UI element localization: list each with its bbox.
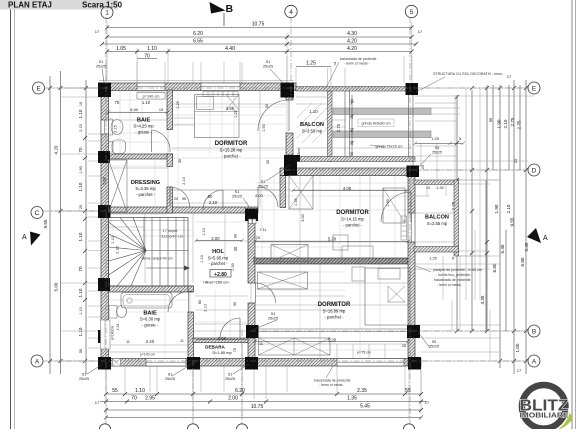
svg-text:1.90: 1.90 — [79, 166, 83, 173]
right wall grid5 lower — [408, 242, 415, 366]
svg-text:S3: S3 — [271, 312, 276, 316]
svg-text:2.10: 2.10 — [182, 177, 186, 184]
svg-text:90: 90 — [208, 194, 213, 199]
extension verticals — [106, 22, 108, 80]
window dormitor top — [201, 83, 240, 91]
p=140 box top — [137, 93, 165, 100]
bubble 5 bottom — [403, 424, 414, 434]
column S1 grid1xA — [98, 357, 111, 370]
svg-text:- parchet -: - parchet - — [136, 192, 156, 197]
svg-text:17: 17 — [517, 368, 522, 373]
svg-text:4: 4 — [289, 9, 293, 16]
svg-text:- parchet -: - parchet - — [324, 315, 344, 320]
svg-text:1.10: 1.10 — [78, 109, 83, 118]
column S3 grid3xB — [246, 325, 259, 338]
svg-text:25x25: 25x25 — [432, 151, 442, 155]
svg-text:S=14.15 mp: S=14.15 mp — [341, 217, 364, 222]
svg-text:10: 10 — [426, 186, 430, 190]
svg-text:S1: S1 — [235, 190, 240, 194]
column S3 grid4xD — [284, 155, 297, 176]
+2.80 box done above; inner dims — [103, 99, 462, 355]
svg-text:1.90: 1.90 — [497, 119, 502, 128]
wall baie-dormitor vertical lower — [167, 154, 173, 167]
walls hatched — [101, 83, 421, 366]
svg-text:p=75 cm: p=75 cm — [357, 351, 371, 355]
beam grinda 1 — [333, 108, 431, 115]
svg-text:DEBARA: DEBARA — [205, 345, 225, 350]
logo green swoosh — [530, 413, 573, 434]
bubble A right — [528, 355, 540, 367]
dim 1.25 line right of terrace — [351, 95, 466, 155]
grid line D — [285, 169, 528, 171]
door baie top — [152, 130, 171, 152]
svg-text:S=5.95 mp: S=5.95 mp — [208, 256, 229, 261]
svg-text:S=1.85 mp: S=1.85 mp — [212, 350, 232, 355]
top balcony railings — [296, 87, 415, 162]
svg-text:80: 80 — [198, 300, 202, 304]
section arrow A right — [527, 228, 548, 243]
svg-text:17: 17 — [425, 400, 430, 405]
svg-text:55: 55 — [489, 118, 493, 122]
dim line row2 — [107, 36, 412, 38]
svg-text:7.11: 7.11 — [259, 228, 266, 232]
wall hol/dorm vertical — [248, 213, 255, 283]
svg-text:DORMITOR: DORMITOR — [336, 210, 369, 216]
svg-text:B: B — [532, 329, 536, 336]
bottom wall A — [101, 359, 421, 367]
sill line bottom dorm — [255, 329, 408, 332]
svg-text:25x25: 25x25 — [263, 65, 273, 69]
grid line 3 — [241, 330, 243, 425]
room labels — [131, 118, 449, 356]
svg-text:9.55: 9.55 — [43, 219, 48, 228]
section arrow A left — [22, 232, 41, 246]
svg-text:90: 90 — [233, 302, 237, 306]
svg-text:- lemn si metal -: - lemn si metal - — [344, 62, 370, 66]
bubble 2 bottom — [187, 424, 198, 434]
svg-text:17: 17 — [95, 29, 100, 34]
balcony top decking — [297, 103, 327, 143]
window baie top — [137, 83, 165, 91]
column grid1xB — [98, 330, 110, 343]
page border right — [571, 0, 573, 429]
column S5 grid5xB — [407, 325, 420, 338]
north arrow B — [210, 2, 226, 14]
svg-text:S=4.25 mp: S=4.25 mp — [133, 124, 154, 129]
svg-text:1.00: 1.00 — [515, 343, 520, 352]
svg-text:95: 95 — [182, 197, 186, 201]
svg-text:p=0cm: p=0cm — [297, 148, 301, 160]
svg-text:4.40: 4.40 — [225, 46, 235, 52]
svg-text:S3: S3 — [261, 180, 266, 184]
door debara — [220, 318, 240, 338]
svg-text:S=3.55 mp: S=3.55 mp — [427, 221, 448, 226]
svg-text:6.20: 6.20 — [193, 31, 203, 37]
svg-text:- inchis box_protectie -: - inchis box_protectie - — [436, 273, 473, 277]
svg-text:70: 70 — [131, 396, 137, 402]
fan lines — [109, 222, 147, 251]
svg-text:2.10: 2.10 — [503, 119, 508, 128]
svg-text:90: 90 — [234, 234, 238, 238]
svg-text:Scara 1:50: Scara 1:50 — [82, 1, 123, 10]
svg-text:2.15: 2.15 — [79, 124, 83, 131]
svg-text:DORMITOR: DORMITOR — [215, 141, 248, 147]
wall baie-dormitor vertical upper — [167, 90, 173, 130]
column grid3xA — [245, 357, 258, 370]
svg-text:1: 1 — [105, 10, 109, 17]
niche p140 — [137, 92, 165, 99]
wall baie/hol vertical lower — [188, 312, 194, 359]
svg-text:1.10: 1.10 — [202, 228, 206, 235]
svg-text:31x16/47 cm: 31x16/47 cm — [161, 235, 183, 239]
window bottom-left — [146, 359, 186, 367]
window right wall mid dorm — [408, 213, 415, 242]
svg-text:3.00: 3.00 — [301, 214, 305, 221]
svg-text:1.50: 1.50 — [231, 263, 235, 270]
svg-text:STRUCTURA CU ROL DECORATIV - l: STRUCTURA CU ROL DECORATIV - lemn - — [433, 72, 505, 76]
svg-text:2.02: 2.02 — [218, 336, 227, 341]
svg-text:1.10: 1.10 — [135, 388, 145, 394]
doors — [152, 100, 412, 338]
svg-text:30: 30 — [178, 159, 182, 163]
grid line 4 — [290, 17, 292, 100]
svg-text:S1: S1 — [82, 373, 87, 377]
windows (openings with glazing lines) — [101, 83, 415, 366]
svg-text:S=16.09 mp: S=16.09 mp — [323, 309, 346, 314]
terrace bottom railing — [296, 157, 415, 162]
svg-text:4.35: 4.35 — [480, 295, 485, 304]
svg-text:75: 75 — [233, 348, 237, 352]
svg-text:parapet de protectie - h=90 cm: parapet de protectie - h=90 cm — [433, 268, 482, 272]
svg-text:balustrada de protectie: balustrada de protectie — [434, 278, 471, 282]
svg-text:5.45: 5.45 — [360, 404, 370, 410]
wall C — [101, 207, 258, 213]
column grid1 baie/dressing — [98, 151, 110, 163]
svg-text:2.10: 2.10 — [209, 200, 218, 205]
svg-text:PLAN ETAJ: PLAN ETAJ — [8, 1, 52, 10]
wall baie/dressing — [101, 154, 173, 159]
door baie bottom — [168, 292, 189, 313]
logo ring — [522, 385, 566, 429]
svg-text:A: A — [532, 359, 537, 366]
svg-text:- lemn si metal -: - lemn si metal - — [437, 283, 463, 287]
bubble 4 top — [285, 5, 297, 17]
notes — [140, 57, 505, 387]
svg-text:1.10: 1.10 — [78, 182, 83, 191]
svg-text:1.25: 1.25 — [176, 101, 180, 108]
svg-text:BALCON: BALCON — [425, 215, 449, 221]
grid line 5 — [409, 17, 411, 425]
svg-text:70: 70 — [78, 266, 83, 272]
svg-text:9.55: 9.55 — [510, 217, 515, 226]
right wall grid5 upper — [408, 176, 415, 214]
svg-text:15: 15 — [159, 108, 163, 112]
svg-text:p=140 cm: p=140 cm — [140, 353, 155, 357]
svg-text:17: 17 — [95, 400, 100, 405]
svg-text:30: 30 — [266, 160, 270, 164]
svg-text:1.10: 1.10 — [147, 46, 157, 52]
svg-text:25x25: 25x25 — [268, 317, 278, 321]
svg-text:5.20: 5.20 — [328, 237, 337, 242]
svg-text:S1: S1 — [266, 60, 271, 64]
wall stair/baie — [108, 286, 193, 292]
balcony right railing — [328, 91, 333, 162]
svg-text:25: 25 — [402, 344, 406, 348]
radiator mid dorm — [401, 216, 407, 240]
bubble B right — [528, 325, 540, 337]
column S4 grid5xD — [407, 166, 420, 178]
wall grid4 lower — [286, 133, 293, 155]
svg-text:D: D — [532, 168, 537, 175]
wall mid-dorm vestibule — [280, 176, 286, 208]
svg-text:latime rampa=90 cm: latime rampa=90 cm — [142, 257, 173, 261]
svg-text:25x25: 25x25 — [225, 377, 235, 381]
bed top dormitor — [195, 95, 240, 138]
svg-text:S1: S1 — [99, 60, 104, 64]
svg-text:- parchet -: - parchet - — [343, 223, 363, 228]
svg-text:1.35: 1.35 — [294, 198, 298, 205]
svg-text:6.20: 6.20 — [235, 388, 245, 394]
bubble C left — [31, 207, 43, 219]
door dormitor bottom — [256, 283, 276, 303]
svg-text:- gresie -: - gresie - — [142, 323, 159, 328]
svg-text:25: 25 — [256, 236, 260, 240]
svg-text:1.10: 1.10 — [111, 236, 115, 243]
svg-text:25x25: 25x25 — [79, 377, 89, 381]
svg-text:55: 55 — [79, 349, 83, 353]
svg-text:10.75: 10.75 — [251, 404, 264, 410]
svg-text:11: 11 — [180, 339, 184, 343]
svg-text:25x25: 25x25 — [96, 65, 106, 69]
wall hol/dorm vertical lower — [248, 303, 255, 338]
furniture top baie — [109, 92, 166, 154]
svg-text:grinda 8x6x80 cm: grinda 8x6x80 cm — [361, 122, 390, 126]
grinda labels — [358, 119, 394, 127]
svg-text:4.20: 4.20 — [54, 145, 59, 154]
svg-text:A: A — [22, 234, 27, 241]
svg-text:5.45: 5.45 — [524, 242, 529, 251]
left wall grid1 — [101, 83, 109, 366]
svg-text:25x25: 25x25 — [232, 195, 242, 199]
door balcony top — [258, 100, 289, 131]
svg-text:6.80: 6.80 — [520, 257, 525, 266]
wc top baie — [112, 140, 126, 154]
terrace top railing — [296, 87, 412, 92]
leader lines to columns — [87, 69, 431, 376]
door balcony right — [381, 192, 411, 222]
column S1 grid4xE — [281, 83, 295, 98]
svg-text:S1: S1 — [168, 373, 173, 377]
svg-text:E: E — [36, 86, 41, 93]
svg-text:1.10: 1.10 — [142, 100, 151, 105]
door dormitor top — [203, 190, 223, 210]
svg-text:17 trepte: 17 trepte — [163, 229, 178, 233]
svg-text:grinda 76x76 cm: grinda 76x76 cm — [375, 145, 402, 149]
grid line B — [250, 330, 528, 332]
svg-text:2.20: 2.20 — [146, 339, 155, 344]
svg-text:5.98: 5.98 — [130, 108, 137, 112]
page border left — [10, 0, 12, 429]
svg-text:64: 64 — [350, 128, 354, 132]
dim line 70 row — [137, 58, 157, 60]
column balcony corner — [294, 155, 301, 162]
svg-text:4.20: 4.20 — [347, 39, 357, 45]
stair — [109, 218, 191, 287]
window bottom-right long — [337, 359, 404, 367]
bubble D right — [528, 164, 540, 176]
svg-text:2.75: 2.75 — [336, 123, 341, 132]
bubble 3 bottom — [236, 424, 247, 434]
svg-text:HOL: HOL — [212, 249, 224, 255]
sink top baie — [111, 120, 123, 135]
wall divider mid/bottom dorm — [254, 258, 414, 264]
svg-text:2.10: 2.10 — [204, 304, 208, 311]
svg-text:25: 25 — [79, 205, 83, 209]
column grid5xA — [408, 357, 421, 370]
title bar — [0, 0, 118, 10]
svg-text:1.30: 1.30 — [436, 186, 443, 190]
bottom baie furniture — [101, 293, 173, 367]
svg-text:20: 20 — [421, 165, 425, 169]
svg-text:S4: S4 — [435, 146, 440, 150]
wall D — [280, 168, 415, 176]
svg-text:10: 10 — [79, 102, 83, 106]
dim line row3 — [102, 43, 416, 45]
column grid1 stair — [98, 278, 110, 291]
radiator top dorm — [203, 92, 238, 97]
svg-text:1.25: 1.25 — [234, 110, 238, 117]
svg-text:5.00: 5.00 — [54, 282, 59, 291]
bubble 1 bottom — [99, 424, 110, 434]
door dormitor mid — [258, 187, 278, 207]
svg-text:6.55: 6.55 — [193, 39, 203, 45]
svg-text:2.75: 2.75 — [510, 117, 515, 126]
svg-text:2.00: 2.00 — [228, 396, 238, 402]
svg-text:17: 17 — [507, 74, 512, 79]
svg-text:DORMITOR: DORMITOR — [318, 302, 351, 308]
right balcony railings — [414, 180, 459, 256]
svg-text:2.75: 2.75 — [517, 120, 522, 129]
svg-text:1.90: 1.90 — [262, 124, 266, 131]
svg-text:A: A — [35, 359, 40, 366]
column S1 grid3xC — [245, 209, 258, 222]
svg-text:S=6.30 mp: S=6.30 mp — [140, 317, 161, 322]
svg-text:1.25: 1.25 — [306, 61, 316, 67]
inner dim lines — [107, 111, 411, 344]
svg-text:C: C — [35, 210, 40, 217]
svg-text:1.35: 1.35 — [347, 396, 357, 402]
grid line 2 — [192, 360, 194, 425]
travel line — [146, 267, 184, 269]
svg-text:4.20: 4.20 — [347, 46, 357, 52]
svg-text:S1: S1 — [228, 373, 233, 377]
svg-text:25x25: 25x25 — [429, 345, 439, 349]
svg-text:70: 70 — [78, 147, 83, 153]
svg-text:1.10: 1.10 — [78, 288, 83, 297]
wall debara right / dorm left lower — [248, 338, 255, 359]
svg-text:2.31: 2.31 — [116, 324, 120, 331]
column grid5xE — [406, 83, 419, 95]
svg-text:2.30: 2.30 — [116, 246, 120, 253]
svg-text:BALCON: BALCON — [300, 122, 324, 128]
wall grid4 upper — [286, 90, 293, 100]
svg-text:p=140cm: p=140cm — [111, 326, 115, 340]
grid line C — [43, 210, 110, 212]
svg-text:1.10: 1.10 — [309, 109, 318, 114]
svg-text:60: 60 — [350, 99, 354, 103]
wall baie/hol vertical upper — [188, 286, 194, 292]
svg-text:60: 60 — [350, 152, 354, 156]
svg-text:5: 5 — [452, 257, 454, 261]
svg-text:6.80: 6.80 — [492, 263, 497, 272]
svg-text:S=15.20 mp: S=15.20 mp — [220, 148, 243, 153]
grid line 1 — [105, 17, 107, 425]
svg-text:- parchet -: - parchet - — [208, 261, 228, 266]
svg-text:70: 70 — [144, 54, 150, 60]
svg-text:5.45: 5.45 — [500, 244, 505, 253]
column grid1xC — [98, 205, 111, 218]
beam grinda 2 — [333, 131, 431, 138]
svg-text:S=3.50 mp: S=3.50 mp — [302, 129, 323, 134]
svg-text:3.85: 3.85 — [226, 106, 235, 111]
svg-text:2.15: 2.15 — [114, 125, 118, 132]
svg-text:- parchet -: - parchet - — [221, 154, 241, 159]
svg-text:2.35: 2.35 — [357, 388, 367, 394]
svg-text:1.10: 1.10 — [78, 327, 83, 336]
svg-text:1.25: 1.25 — [431, 136, 440, 141]
svg-text:2.95: 2.95 — [145, 396, 155, 402]
balcony 1.25 dim — [296, 66, 331, 68]
svg-text:1.90: 1.90 — [494, 204, 499, 213]
door dressing — [170, 187, 190, 207]
svg-text:balustrada de protectie: balustrada de protectie — [340, 57, 377, 61]
columns — [98, 83, 421, 370]
svg-text:- lemn si metal -: - lemn si metal - — [319, 383, 345, 387]
svg-text:1.10: 1.10 — [79, 307, 83, 314]
svg-text:10.75: 10.75 — [252, 22, 265, 28]
grid line A — [43, 360, 528, 362]
S labels — [79, 60, 442, 381]
top wall E — [101, 83, 296, 91]
column S1 grid1xE — [98, 83, 111, 98]
svg-text:hliber=260 cm: hliber=260 cm — [203, 280, 229, 285]
bubble 5 top — [405, 5, 417, 17]
eave line above top wall — [99, 80, 294, 82]
svg-text:15: 15 — [350, 115, 354, 119]
dressing wardrobe — [109, 160, 128, 212]
svg-text:IMOBILIARE: IMOBILIARE — [520, 413, 569, 420]
svg-text:2.00: 2.00 — [255, 194, 262, 198]
bubble E right — [528, 82, 540, 94]
bubble A left — [31, 355, 43, 367]
svg-text:25x25: 25x25 — [258, 185, 268, 189]
svg-text:17: 17 — [418, 29, 423, 34]
svg-text:p=140 cm: p=140 cm — [143, 95, 160, 99]
svg-text:1.25: 1.25 — [429, 257, 436, 261]
mid dormitor furniture — [271, 176, 405, 262]
svg-text:1.10: 1.10 — [78, 232, 83, 241]
mid line — [146, 250, 188, 252]
svg-text:S=3.35 mp: S=3.35 mp — [135, 186, 156, 191]
jamb boxes below C3 column — [249, 219, 257, 224]
svg-text:E: E — [532, 86, 537, 93]
dim line total 10.75 — [107, 27, 412, 29]
wall debara top — [193, 338, 255, 343]
svg-text:S5: S5 — [432, 340, 437, 344]
svg-text:- gresie -: - gresie - — [135, 130, 152, 135]
svg-text:11: 11 — [259, 342, 263, 346]
svg-text:30: 30 — [233, 246, 238, 251]
